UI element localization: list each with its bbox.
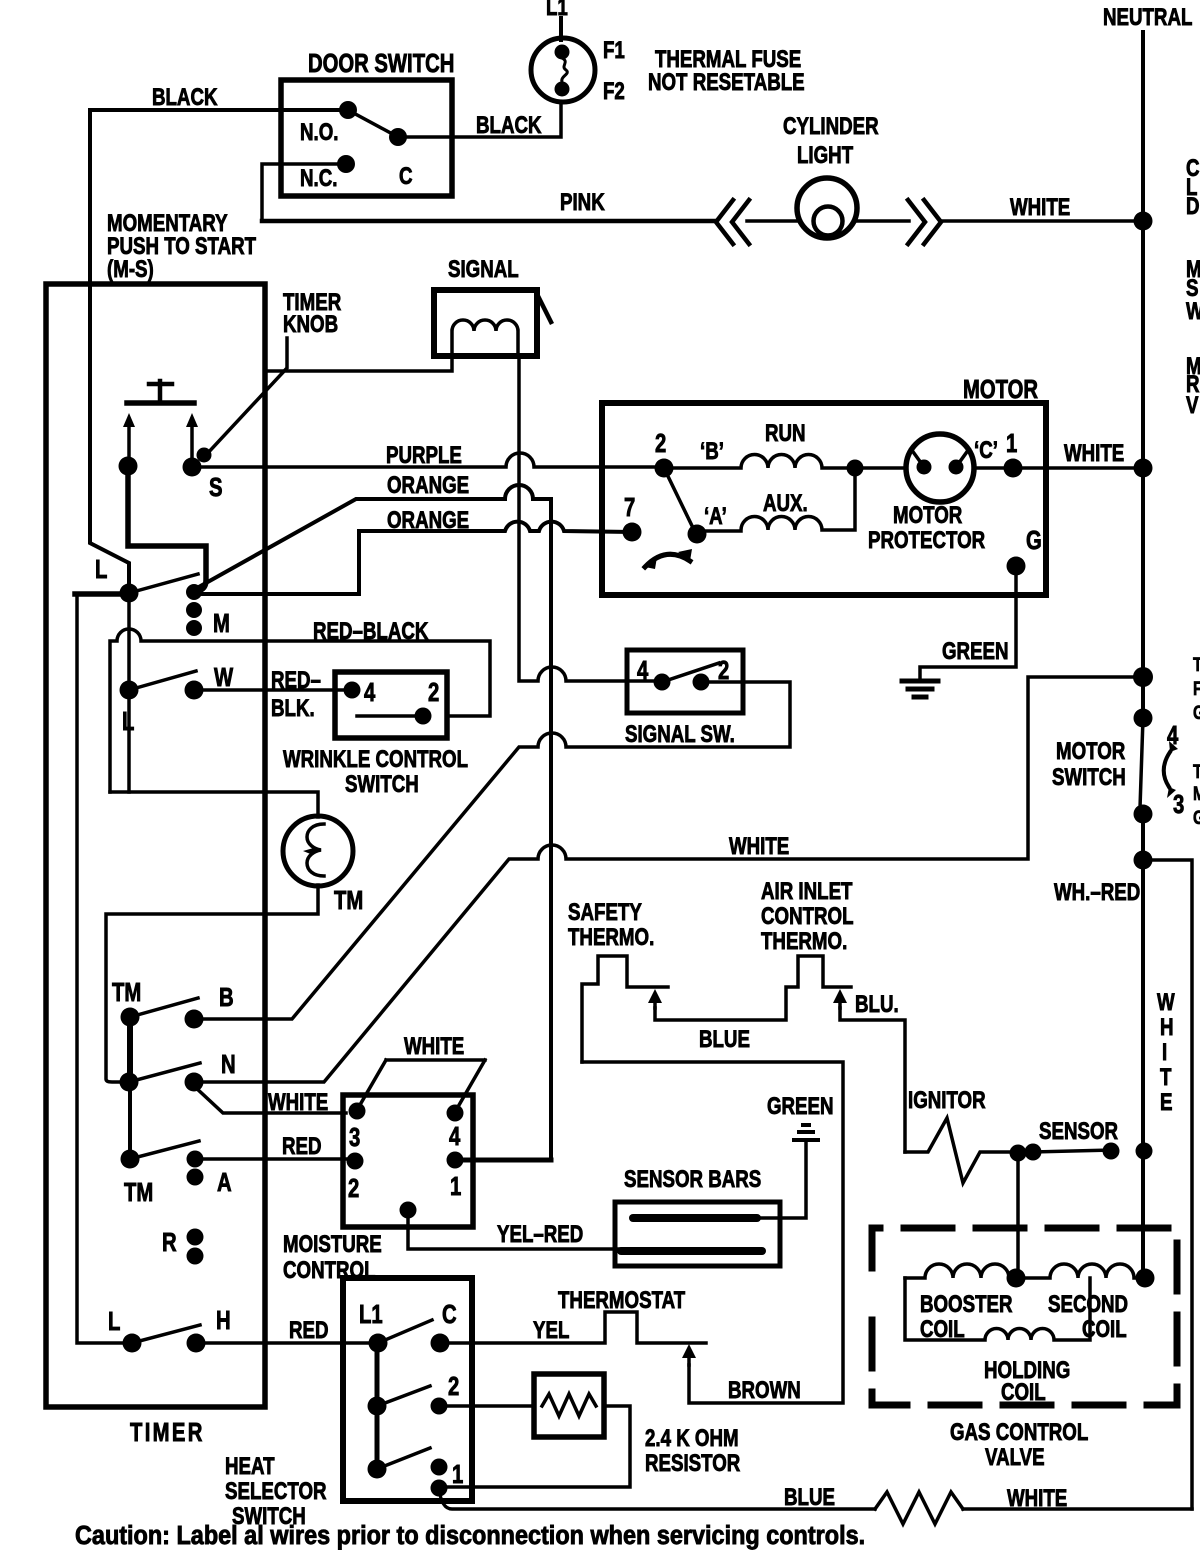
- motor switch arc: [1164, 752, 1170, 787]
- svg-text:2: 2: [448, 1372, 459, 1401]
- svg-text:WHITE: WHITE: [1064, 440, 1124, 467]
- wire L chain down from W: [127, 690, 131, 792]
- motor terminal 7: [623, 523, 642, 542]
- svg-text:MOTOR: MOTOR: [893, 502, 963, 529]
- signal box tick: [536, 292, 551, 322]
- svg-text:M: M: [213, 609, 230, 638]
- svg-text:G: G: [1026, 526, 1042, 555]
- sensor right dots: [1103, 1143, 1120, 1160]
- door switch N.C. terminal: [337, 155, 355, 173]
- heat selector mid contact: [368, 1397, 387, 1416]
- wire PINK row: [262, 219, 716, 224]
- junction neutral/pink-white: [1134, 212, 1153, 231]
- motor blade 2-A: [664, 468, 695, 532]
- sensor bar top: [633, 1214, 757, 1222]
- moisture bottom terminal: [400, 1202, 417, 1219]
- svg-text:LIGHT: LIGHT: [797, 142, 853, 169]
- svg-text:HEAT: HEAT: [225, 1453, 275, 1480]
- sensor bar bottom: [621, 1247, 762, 1255]
- svg-text:BROWN: BROWN: [728, 1377, 801, 1404]
- svg-text:GREEN: GREEN: [942, 638, 1009, 665]
- svg-text:BLU.: BLU.: [855, 991, 899, 1018]
- svg-text:T: T: [1193, 760, 1200, 782]
- wire signal left leg to timer: [266, 356, 452, 371]
- green ground symbol: [794, 1125, 818, 1140]
- wire L1 to fuse: [559, 18, 563, 40]
- wire signal right leg down to signal sw 4 (hop over 551): [519, 356, 662, 681]
- motor terminal A: [688, 525, 707, 544]
- terminal R dots: [187, 1229, 204, 1246]
- blade A: [130, 1141, 199, 1159]
- wire thick L horizontal: [75, 591, 122, 597]
- svg-text:C: C: [399, 163, 413, 190]
- svg-text:PURPLE: PURPLE: [386, 442, 462, 469]
- moisture terminal 2: [347, 1153, 364, 1170]
- wire RED A to moisture 2: [195, 1157, 355, 1161]
- svg-text:CYLINDER: CYLINDER: [783, 113, 879, 140]
- svg-text:VALVE: VALVE: [985, 1444, 1045, 1471]
- timer knob pointer: [205, 338, 287, 456]
- svg-text:G: G: [1193, 806, 1200, 828]
- wire thick: push contact to M: [128, 466, 206, 591]
- wire L down to W contact: [127, 593, 131, 690]
- svg-text:THERMO.: THERMO.: [568, 924, 654, 951]
- svg-text:4: 4: [449, 1122, 460, 1151]
- safety thermo arrow: [653, 997, 657, 1008]
- svg-text:SENSOR BARS: SENSOR BARS: [624, 1166, 761, 1193]
- door switch N.O. terminal: [339, 101, 357, 119]
- svg-text:D: D: [1186, 193, 1200, 220]
- svg-text:YEL: YEL: [533, 1317, 569, 1344]
- wire bottom BLUE: [439, 1488, 875, 1509]
- svg-text:TIMER: TIMER: [130, 1418, 205, 1447]
- svg-text:SAFETY: SAFETY: [568, 899, 642, 926]
- signal switch box: [627, 650, 743, 713]
- timer box: [46, 284, 265, 1407]
- moisture terminal 1: [447, 1152, 464, 1169]
- junction neutral/motor white: [1134, 459, 1153, 478]
- svg-text:‘A’: ‘A’: [704, 503, 727, 530]
- wire PURPLE S to motor 2 (hop over x520): [192, 453, 664, 467]
- blade H: [132, 1325, 200, 1343]
- node M dots: [186, 584, 202, 600]
- wire RED-BLACK: riser, across (hop over 131), down to wrinkle 2: [110, 629, 490, 792]
- svg-text:L: L: [108, 1307, 120, 1336]
- signal coil box: [434, 290, 537, 356]
- blade L1-C: [378, 1320, 432, 1343]
- svg-text:BLACK: BLACK: [152, 84, 218, 111]
- junction RUN/AUX: [847, 460, 864, 477]
- wire sensor to booster junction: [1016, 1153, 1020, 1278]
- motor switch contact bottom: [1134, 805, 1153, 824]
- svg-text:IGNITOR: IGNITOR: [908, 1087, 986, 1114]
- contact H dot: [187, 1334, 206, 1353]
- contact N dot: [185, 1073, 204, 1092]
- heat selector bottom contact: [368, 1460, 387, 1479]
- svg-text:M: M: [1193, 782, 1200, 804]
- svg-text:ORANGE: ORANGE: [387, 507, 469, 534]
- contact L (bottom row): [123, 1334, 142, 1353]
- heat selector terminal 1 dots: [431, 1459, 448, 1476]
- wrinkle terminal 2: [415, 708, 432, 725]
- wire ignitor: [905, 1118, 1018, 1183]
- wire green to sensor bar: [758, 1142, 806, 1218]
- air inlet thermo arrow: [838, 997, 842, 1008]
- svg-text:CONTROL: CONTROL: [761, 903, 854, 930]
- blade B: [130, 998, 198, 1017]
- TM motor circle: [283, 816, 353, 886]
- wire ORANGE 1: M diagonal up to x551 then down to moisture 1: [197, 485, 551, 1157]
- svg-text:W: W: [214, 663, 233, 692]
- cylinder light lamp: [797, 178, 857, 238]
- svg-text:RESISTOR: RESISTOR: [645, 1450, 741, 1477]
- svg-text:‘C’: ‘C’: [974, 437, 998, 464]
- svg-text:MOISTURE: MOISTURE: [283, 1231, 382, 1258]
- svg-text:E: E: [1160, 1089, 1172, 1116]
- svg-text:WHITE: WHITE: [404, 1033, 464, 1060]
- RUN winding: [664, 455, 855, 468]
- sensor wire: [1033, 1150, 1111, 1152]
- thermostat arrow: [687, 1354, 691, 1365]
- safety thermostat symbol: [582, 956, 668, 1062]
- door switch blade N.O.-C: [348, 110, 398, 137]
- wire thermostat loop (brown path): [582, 1062, 843, 1403]
- svg-text:NOT RESETABLE: NOT RESETABLE: [648, 69, 805, 96]
- svg-text:2.4 K OHM: 2.4 K OHM: [645, 1425, 739, 1452]
- contact W dot: [185, 681, 204, 700]
- wire TM motor loop: [106, 792, 318, 1082]
- contact S dot: [183, 458, 202, 477]
- contact W: L dot: [120, 681, 139, 700]
- moisture wire bundle: [357, 1060, 485, 1112]
- motor switch blade: [1140, 718, 1143, 808]
- svg-text:WH.–RED: WH.–RED: [1054, 879, 1140, 906]
- connector chevrons right: [908, 200, 941, 244]
- motor switch contact top: [1134, 709, 1153, 728]
- junction second coil right: [1136, 1269, 1155, 1288]
- heat selector common bus: [375, 1343, 380, 1469]
- svg-text:RED: RED: [289, 1317, 329, 1344]
- svg-text:COIL: COIL: [1082, 1316, 1127, 1343]
- signal sw blade: [662, 663, 719, 682]
- svg-text:N: N: [221, 1050, 236, 1079]
- motor rotation arc: [645, 554, 690, 567]
- svg-text:DOOR SWITCH: DOOR SWITCH: [308, 49, 454, 78]
- contact dot left: [119, 457, 138, 476]
- contact TM (B row): [121, 1008, 140, 1027]
- svg-text:C: C: [442, 1300, 457, 1329]
- moisture control box: [343, 1095, 473, 1227]
- svg-text:G: G: [1193, 701, 1200, 723]
- booster coil: [905, 1264, 1016, 1278]
- svg-text:AIR INLET: AIR INLET: [761, 878, 852, 905]
- sensor left dots: [1010, 1145, 1027, 1162]
- second coil: [1016, 1264, 1143, 1278]
- svg-text:WRINKLE CONTROL: WRINKLE CONTROL: [283, 746, 468, 773]
- wire WHITE motor to neutral: [1013, 466, 1143, 470]
- svg-text:ORANGE: ORANGE: [387, 472, 469, 499]
- svg-text:SIGNAL SW.: SIGNAL SW.: [625, 721, 735, 748]
- resistor box: [534, 1374, 604, 1437]
- wire BLUE: [655, 956, 851, 1020]
- svg-text:TM: TM: [334, 886, 363, 915]
- motor protector: [906, 434, 974, 502]
- blade N: [129, 1063, 200, 1082]
- wire YEL heat selector C to thermostat: [440, 1312, 706, 1343]
- wire GREEN G to ground: [920, 566, 1016, 679]
- thermal fuse F1/F2 circle: [531, 38, 595, 102]
- svg-text:1: 1: [1006, 429, 1017, 458]
- svg-text:PROTECTOR: PROTECTOR: [868, 527, 986, 554]
- wire N-row to A-row connector: [128, 1082, 132, 1159]
- wire lamp to chevrons right: [857, 219, 909, 223]
- svg-text:S: S: [209, 473, 223, 502]
- wire moisture 1 to orange riser: [455, 1158, 551, 1163]
- wire WH.-RED down right edge: [1143, 860, 1192, 1509]
- svg-text:L1: L1: [546, 0, 568, 21]
- wire NEUTRAL vertical line: [1141, 32, 1145, 718]
- svg-text:SELECTOR: SELECTOR: [225, 1478, 327, 1505]
- svg-text:TM: TM: [124, 1178, 153, 1207]
- svg-text:BLK.: BLK.: [271, 695, 315, 722]
- wire thick TM-TM connector: [127, 1017, 133, 1082]
- junction motor switch white: [1134, 851, 1153, 870]
- svg-text:THERMO.: THERMO.: [761, 928, 847, 955]
- svg-text:YEL–RED: YEL–RED: [497, 1221, 583, 1248]
- blade 2: [377, 1386, 430, 1406]
- motor terminal 1: [1004, 459, 1023, 478]
- gas control valve dashed box: [872, 1228, 1177, 1405]
- svg-text:3: 3: [349, 1123, 360, 1152]
- heat selector switch box: [343, 1278, 472, 1501]
- svg-text:COIL: COIL: [920, 1316, 965, 1343]
- svg-text:(M-S): (M-S): [107, 256, 154, 283]
- svg-text:PINK: PINK: [560, 189, 605, 216]
- svg-text:BLUE: BLUE: [699, 1026, 750, 1053]
- svg-text:T: T: [1160, 1064, 1171, 1091]
- svg-text:MOTOR: MOTOR: [963, 375, 1038, 404]
- door switch box: [281, 80, 452, 196]
- wire N to moisture 3 (white): [194, 1086, 346, 1113]
- motor terminal 2: [655, 459, 674, 478]
- wire RED H to heat selector L1: [196, 1341, 378, 1345]
- wire ORANGE 2: M horizontal, riser, to motor 7 (hops over 520,551): [194, 522, 630, 594]
- wire 2 to resistor: [439, 1404, 534, 1408]
- connector chevrons left: [716, 200, 749, 244]
- svg-text:WHITE: WHITE: [729, 833, 789, 860]
- contact B dot: [185, 1010, 204, 1029]
- svg-text:4: 4: [364, 678, 375, 707]
- wire BLACK from door N.O. down left side: [90, 110, 348, 585]
- svg-text:COIL: COIL: [1001, 1379, 1046, 1406]
- wire WHITE to neutral: [941, 219, 1143, 223]
- junction motor switch top: [1133, 667, 1153, 687]
- wire signal sw 2 to timer B contact (hop over 551): [194, 682, 790, 1019]
- wire protector to terminal 1: [974, 466, 1013, 470]
- svg-text:TM: TM: [112, 978, 141, 1007]
- svg-text:GREEN: GREEN: [767, 1093, 834, 1120]
- svg-text:RUN: RUN: [765, 420, 806, 447]
- svg-text:T: T: [1193, 653, 1200, 675]
- svg-text:SIGNAL: SIGNAL: [448, 256, 519, 283]
- svg-text:KNOB: KNOB: [283, 311, 338, 338]
- signal sw terminal 4: [654, 674, 671, 691]
- push-to-start button symbol: [149, 381, 172, 399]
- blade 1: [377, 1448, 430, 1469]
- ground symbol: [902, 681, 938, 697]
- svg-text:F: F: [1193, 677, 1200, 699]
- svg-text:V: V: [1186, 392, 1199, 419]
- sensor bars box: [615, 1202, 780, 1266]
- svg-text:2: 2: [718, 656, 729, 685]
- svg-text:F2: F2: [603, 78, 625, 105]
- svg-text:SECOND: SECOND: [1048, 1291, 1128, 1318]
- motor box: [602, 403, 1046, 595]
- holding coil loop: [905, 1278, 1090, 1340]
- svg-text:THERMOSTAT: THERMOSTAT: [558, 1287, 685, 1314]
- svg-text:N.C.: N.C.: [300, 165, 337, 192]
- wire N to WHITE riser diagonal B: [194, 677, 1143, 1082]
- svg-text:2: 2: [655, 429, 666, 458]
- svg-text:1: 1: [452, 1460, 463, 1489]
- svg-text:SENSOR: SENSOR: [1039, 1118, 1118, 1145]
- svg-text:W: W: [1157, 989, 1175, 1016]
- svg-text:A: A: [217, 1168, 232, 1197]
- signal sw terminal 2: [693, 674, 710, 691]
- moisture terminal 4: [447, 1105, 464, 1122]
- wire resistor loop to terminal 1: [439, 1406, 630, 1487]
- blade W: [129, 671, 196, 690]
- svg-text:H: H: [216, 1306, 231, 1335]
- svg-text:I: I: [1162, 1039, 1167, 1066]
- svg-text:WHITE: WHITE: [268, 1089, 328, 1116]
- resistor zigzag: [542, 1394, 596, 1416]
- svg-text:BLUE: BLUE: [784, 1484, 835, 1511]
- svg-text:N.O.: N.O.: [300, 119, 338, 146]
- node L junction: [120, 584, 139, 603]
- svg-text:1: 1: [450, 1172, 461, 1201]
- wire BLU to ignitor feed: [840, 1008, 905, 1152]
- signal coil: [452, 320, 518, 356]
- bottom heater zigzag: [875, 1492, 963, 1524]
- wrinkle terminal 4: [344, 682, 361, 699]
- wire L feed down to L-H contact: [77, 596, 125, 1343]
- svg-text:3: 3: [1173, 790, 1184, 819]
- svg-text:7: 7: [624, 493, 635, 522]
- wire bottom WHITE to right riser: [963, 1507, 1192, 1511]
- AUX winding: [697, 468, 855, 531]
- svg-text:RED: RED: [282, 1133, 322, 1160]
- wire YEL-RED moisture to sensor bar: [408, 1210, 621, 1249]
- svg-text:W: W: [1186, 298, 1200, 325]
- svg-text:R: R: [162, 1228, 177, 1257]
- svg-text:GAS CONTROL: GAS CONTROL: [950, 1419, 1088, 1446]
- blade L to M: [129, 574, 198, 593]
- contact TM (A row): [121, 1150, 140, 1169]
- svg-text:Caution: Label al wires prior: Caution: Label al wires prior to disconn…: [75, 1521, 865, 1550]
- motor terminal G: [1007, 557, 1026, 576]
- junction booster/second: [1007, 1269, 1026, 1288]
- moisture terminal 3: [349, 1103, 366, 1120]
- heat selector terminal 2: [431, 1398, 448, 1415]
- svg-text:AUX.: AUX.: [763, 490, 808, 517]
- svg-text:BLACK: BLACK: [476, 112, 542, 139]
- wire fuse to door switch C (BLACK): [407, 102, 561, 137]
- push-to-start arrows: [129, 424, 192, 458]
- svg-text:BOOSTER: BOOSTER: [920, 1291, 1013, 1318]
- svg-text:‘B’: ‘B’: [700, 438, 724, 465]
- svg-text:MOTOR: MOTOR: [1056, 738, 1126, 765]
- svg-text:NEUTRAL: NEUTRAL: [1103, 4, 1192, 31]
- wrinkle blade: [357, 714, 423, 718]
- svg-text:4: 4: [637, 656, 648, 685]
- svg-text:SWITCH: SWITCH: [1052, 764, 1126, 791]
- svg-text:L1: L1: [359, 1300, 383, 1329]
- wire to cylinder light: [747, 219, 798, 223]
- svg-text:H: H: [1160, 1014, 1174, 1041]
- door switch C terminal: [389, 128, 407, 146]
- contact TM (N row): [120, 1073, 139, 1092]
- heat selector terminal L1: [369, 1334, 388, 1353]
- svg-text:2: 2: [428, 678, 439, 707]
- svg-text:L: L: [95, 555, 107, 584]
- wrinkle control switch box: [335, 672, 447, 738]
- wire neutral lower: [1141, 814, 1145, 1278]
- svg-text:WHITE: WHITE: [1010, 194, 1070, 221]
- svg-text:SWITCH: SWITCH: [345, 771, 419, 798]
- wire N.C. to PINK row: [262, 164, 346, 221]
- contact A dots: [187, 1151, 204, 1168]
- heat selector terminal C: [431, 1334, 450, 1353]
- svg-text:2: 2: [348, 1174, 359, 1203]
- wire to protector: [855, 466, 906, 470]
- svg-text:F1: F1: [603, 37, 625, 64]
- svg-text:B: B: [219, 983, 234, 1012]
- wire W to wrinkle 4: [194, 688, 352, 692]
